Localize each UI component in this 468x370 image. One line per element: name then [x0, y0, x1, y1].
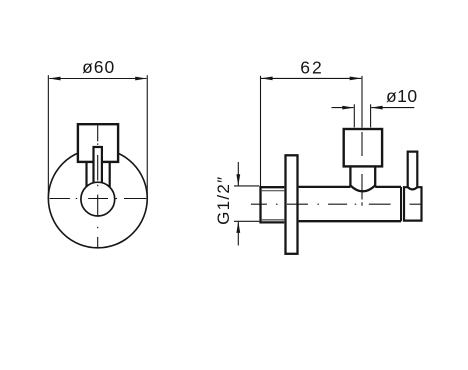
hub circle (front) — [81, 182, 115, 216]
dimension Ø10 extension line left — [353, 104, 355, 127]
dimension 62 extension line left — [260, 76, 262, 187]
handle stem (side) — [350, 166, 375, 191]
svg-text:62: 62 — [300, 57, 323, 77]
svg-text:ø60: ø60 — [82, 57, 115, 77]
dimension Ø60 arrow left — [49, 77, 61, 81]
lever centerline (front) — [97, 155, 99, 181]
dimension 62 arrow right — [350, 77, 362, 81]
dimension Ø10 arrow left — [342, 106, 354, 110]
horizontal centerline (front view) — [50, 198, 147, 200]
thread root line top — [262, 190, 285, 192]
flange circle (Ø60 body) — [48, 149, 147, 248]
lever slot (front) — [94, 148, 101, 181]
horizontal centerline (side view) — [251, 203, 421, 205]
dimension 62 line — [261, 77, 361, 79]
outlet pipe — [408, 152, 418, 188]
dimension 62 extension line right / handle axis — [361, 76, 363, 128]
handle square (front) — [78, 124, 118, 162]
dimension G1/2 extension line bottom — [234, 220, 259, 222]
dimension Ø10 leader left — [332, 107, 354, 109]
vertical centerline (front view) — [97, 125, 99, 248]
handle block (side) — [344, 129, 382, 166]
dimension Ø10 arrow right — [371, 106, 383, 110]
wall flange plate — [286, 155, 298, 254]
dimension Ø10 extension line right — [370, 104, 372, 127]
valve body tube bottom edge — [299, 220, 401, 222]
dimension Ø60 extension line right — [146, 75, 148, 198]
dimension Ø60 line — [49, 78, 146, 80]
dimension G1/2 line top — [237, 162, 239, 186]
svg-text:ø10: ø10 — [386, 86, 418, 106]
dimension Ø60 arrow right — [135, 77, 147, 81]
dimension Ø10 leader right — [371, 107, 414, 109]
svg-text:G1/2″: G1/2″ — [214, 176, 233, 225]
dimension Ø60 extension line left — [47, 75, 49, 198]
dimension G1/2 line bottom — [237, 222, 239, 246]
dimension G1/2 arrow bottom — [236, 221, 240, 233]
stem side right (front) — [109, 163, 111, 187]
dimension 62 arrow left — [261, 77, 273, 81]
dimension G1/2 arrow top — [236, 174, 240, 186]
outlet end cap block — [404, 187, 422, 220]
dimension G1/2 extension line top — [234, 185, 259, 187]
valve body right end edge — [400, 187, 402, 221]
stem axis centerline — [361, 132, 363, 206]
stem side left (front) — [85, 163, 87, 187]
thread root line bottom — [262, 219, 285, 221]
threaded inlet G1/2 body — [261, 187, 285, 222]
valve body tube top edge — [299, 186, 351, 188]
